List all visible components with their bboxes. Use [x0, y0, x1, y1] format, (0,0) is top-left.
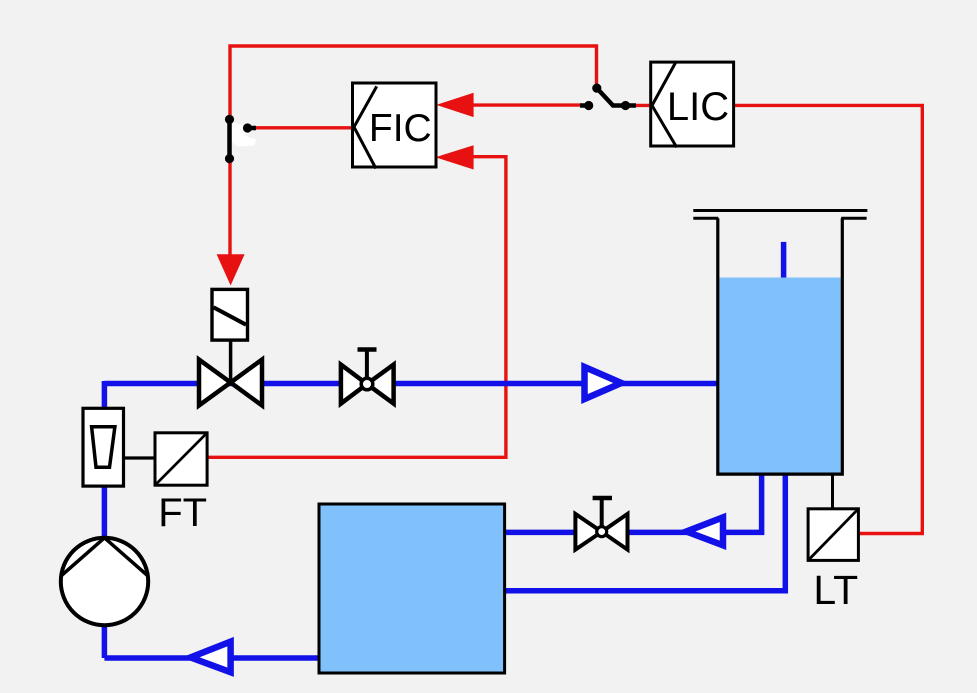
flow arrow: main pipe pointing right: [585, 367, 622, 399]
tank: lid top line: [693, 209, 867, 212]
connector: tank bottom to LT: [831, 474, 834, 509]
manual valve V2: gland circle: [597, 527, 607, 537]
manual valve V1: body triangles: [341, 365, 367, 404]
reservoir: water box: [319, 504, 505, 673]
wire: red FT measurement to FIC lower input: [207, 157, 506, 458]
transmitter FT: box with diagonal: [155, 433, 207, 485]
svg-text:FT: FT: [158, 491, 207, 535]
transmitter LT: box with diagonal: [808, 509, 858, 561]
tank: lid lower right segment: [841, 217, 866, 220]
switch S2: contacts and arm near LIC: [580, 84, 636, 111]
manual valve V2: body triangles: [575, 514, 601, 550]
switch S1: contacts and closed arm: [225, 115, 257, 163]
wire: red FIC upper input (remote setpoint) from switch S2 open contact: [472, 103, 582, 106]
connector: rotameter to FT: [124, 456, 156, 459]
wire: red signal LIC output to switch S2, top run to switch S1: [230, 46, 597, 119]
pipe: blue tank inlet stub: [781, 242, 787, 278]
control valve: stem: [229, 340, 233, 382]
flow arrow: bottom pipe pointing left: [191, 642, 231, 673]
svg-text:LIC: LIC: [667, 85, 729, 129]
manual valve V1: gland circle: [361, 378, 373, 390]
svg-text:FIC: FIC: [369, 107, 432, 150]
tank: water fill: [720, 278, 841, 473]
rotameter: body: [83, 408, 124, 486]
flow arrow: drain pipe pointing left: [686, 517, 723, 545]
wire: red switch S2 to LIC left: [634, 104, 651, 107]
control valve: body left triangle: [199, 360, 231, 406]
arrowhead: red into FIC upper right: [436, 93, 473, 117]
pipe: blue vertical through rotameter and pump: [102, 381, 108, 658]
pump: circle with impeller chords: [61, 538, 148, 625]
control valve: actuator box with diagonal: [212, 289, 248, 340]
pipe: blue tank drain 2 lower run to reservoir: [505, 474, 786, 591]
controller FIC: box: [353, 83, 437, 169]
tank: lid lower left segment: [693, 217, 718, 220]
tank: walls and bottom: [718, 218, 843, 474]
svg-text:LT: LT: [813, 567, 858, 613]
pipe: blue pump outlet bottom run to reservoir: [104, 655, 319, 661]
controller LIC: box: [651, 62, 734, 147]
control valve: body right triangle: [231, 360, 262, 406]
arrowhead: red into actuator: [217, 254, 245, 285]
manual valve V1: handle: [358, 350, 377, 379]
wire: red LIC right to LT measurement: [734, 105, 923, 533]
manual valve V2: handle: [593, 498, 612, 526]
pipe: blue main feed line pump to tank: [104, 381, 718, 387]
arrowhead: red into FIC lower right: [435, 145, 473, 169]
wire: red signal switch S1 to control valve actuator: [228, 158, 231, 258]
wire: red switch S1 side contact to FIC input: [252, 126, 353, 129]
pipe: blue tank drain 1 to valve and reservoir: [505, 474, 762, 532]
